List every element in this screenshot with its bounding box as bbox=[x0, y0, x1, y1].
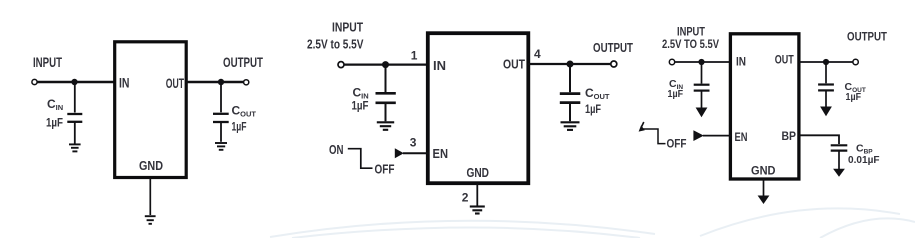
svg-text:INPUT: INPUT bbox=[332, 20, 363, 35]
svg-text:OUT: OUT bbox=[166, 75, 185, 91]
svg-text:0.01µF: 0.01µF bbox=[848, 154, 880, 166]
svg-text:1µF: 1µF bbox=[352, 99, 369, 113]
svg-text:1µF: 1µF bbox=[668, 88, 684, 100]
svg-text:IN: IN bbox=[433, 58, 446, 73]
junction: output node (circuit 2) bbox=[567, 61, 574, 68]
capacitor C_OUT 1uF (circuit 1) bbox=[213, 82, 229, 142]
svg-text:1µF: 1µF bbox=[585, 102, 601, 116]
terminal: output open circle (circuit 3) bbox=[853, 59, 858, 64]
svg-text:OUTPUT: OUTPUT bbox=[223, 54, 263, 70]
wire: ON/OFF step (circuit 3) bbox=[643, 129, 666, 144]
wire: OUT pin to output terminal (circuit 1) bbox=[186, 81, 244, 84]
ground: GND pin (circuit 2) bbox=[470, 207, 485, 214]
svg-text:2.5V TO 5.5V: 2.5V TO 5.5V bbox=[662, 37, 719, 51]
svg-text:2.5V to 5.5V: 2.5V to 5.5V bbox=[307, 37, 364, 52]
ground: below C_IN (circuit 1) bbox=[69, 144, 81, 151]
svg-text:EN: EN bbox=[433, 146, 449, 161]
wire: input rail to IN pin (circuit 3) bbox=[675, 61, 730, 63]
regulator U3 body (circuit 3) bbox=[730, 34, 799, 179]
wire: OUT pin to output terminal (circuit 2) bbox=[528, 63, 611, 65]
junction: input node (circuit 1) bbox=[71, 79, 77, 85]
svg-text:OUTPUT: OUTPUT bbox=[847, 29, 888, 43]
svg-text:BP: BP bbox=[782, 131, 797, 143]
svg-text:1µF: 1µF bbox=[232, 120, 247, 134]
wire: BP pin to C_BP (circuit 3) bbox=[799, 135, 839, 144]
svg-text:INPUT: INPUT bbox=[33, 54, 62, 70]
ground: arrow below C_BP (circuit 3) bbox=[833, 169, 845, 177]
arrowhead: EN drive (circuit 2) bbox=[395, 148, 404, 158]
junction: input node (circuit 2) bbox=[382, 61, 389, 68]
ground: below C_OUT (circuit 1) bbox=[215, 143, 227, 150]
svg-text:OFF: OFF bbox=[667, 138, 687, 150]
svg-text:GND: GND bbox=[139, 158, 163, 173]
decorative scan marks (faint) bbox=[270, 208, 915, 238]
capacitor C_BP 0.01uF (circuit 3) bbox=[831, 145, 848, 169]
svg-text:IN: IN bbox=[119, 75, 130, 91]
svg-text:IN: IN bbox=[736, 56, 746, 68]
ground: below C_OUT (circuit 2) bbox=[561, 122, 580, 130]
capacitor C_IN 1uF (circuit 2) bbox=[376, 65, 396, 122]
svg-text:1: 1 bbox=[411, 49, 418, 63]
ground: GND pin (circuit 1) bbox=[145, 216, 156, 224]
svg-text:3: 3 bbox=[410, 135, 417, 149]
svg-text:OUT: OUT bbox=[503, 56, 525, 71]
ground: arrow below C_OUT (circuit 3) bbox=[820, 107, 832, 117]
svg-text:OUT: OUT bbox=[775, 55, 794, 67]
wire: input rail to IN pin (circuit 2) bbox=[344, 63, 429, 65]
ground: arrow below C_IN (circuit 3) bbox=[696, 108, 708, 118]
svg-text:1µF: 1µF bbox=[846, 91, 862, 103]
terminal: output open circle (circuit 1) bbox=[244, 80, 249, 85]
regulator U1 body (circuit 1) bbox=[115, 42, 187, 178]
wire: GND pin stem (circuit 3) bbox=[763, 179, 765, 196]
regulator U2 body (circuit 2) bbox=[428, 33, 529, 183]
capacitor C_OUT 1uF (circuit 3) bbox=[818, 62, 834, 107]
terminal: input open circle (circuit 3) bbox=[669, 59, 674, 64]
capacitor C_IN 1uF (circuit 1) bbox=[67, 82, 82, 144]
wire: OUT pin to output terminal (circuit 3) bbox=[799, 61, 853, 63]
capacitor C_OUT 1uF (circuit 2) bbox=[560, 64, 581, 121]
arrowhead: EN drive (circuit 3) bbox=[693, 130, 703, 141]
terminal: output open circle (circuit 2) bbox=[611, 61, 617, 67]
wire: arrow to EN pin (circuit 2) bbox=[403, 152, 429, 154]
wire: GND pin stem (circuit 1) bbox=[149, 178, 151, 216]
arrow: enable input marker (circuit 3) bbox=[639, 122, 645, 132]
svg-text:EN: EN bbox=[735, 132, 748, 144]
wire: input rail to IN pin (circuit 1) bbox=[37, 81, 115, 84]
wire: arrow to EN pin (circuit 3) bbox=[703, 135, 731, 137]
wire: GND pin stem (circuit 2) bbox=[476, 184, 478, 206]
ground: below C_IN (circuit 2) bbox=[377, 122, 394, 130]
svg-text:2: 2 bbox=[462, 190, 469, 204]
ground: arrow below GND pin (circuit 3) bbox=[758, 196, 770, 205]
svg-text:1µF: 1µF bbox=[46, 116, 63, 130]
svg-text:GND: GND bbox=[467, 165, 490, 180]
terminal: input open circle (circuit 2) bbox=[338, 62, 344, 68]
svg-text:ON: ON bbox=[329, 142, 344, 157]
junction: input node (circuit 3) bbox=[698, 59, 704, 65]
terminal: input open circle (circuit 1) bbox=[32, 79, 37, 84]
svg-text:OUTPUT: OUTPUT bbox=[593, 41, 633, 55]
svg-text:4: 4 bbox=[534, 47, 541, 61]
wire: ON/OFF step (circuit 2) bbox=[348, 149, 373, 169]
capacitor C_IN 1uF (circuit 3) bbox=[694, 62, 710, 108]
junction: output node (circuit 1) bbox=[218, 79, 224, 85]
svg-text:OFF: OFF bbox=[375, 162, 395, 177]
svg-text:GND: GND bbox=[751, 166, 776, 178]
junction: output node (circuit 3) bbox=[823, 59, 829, 65]
